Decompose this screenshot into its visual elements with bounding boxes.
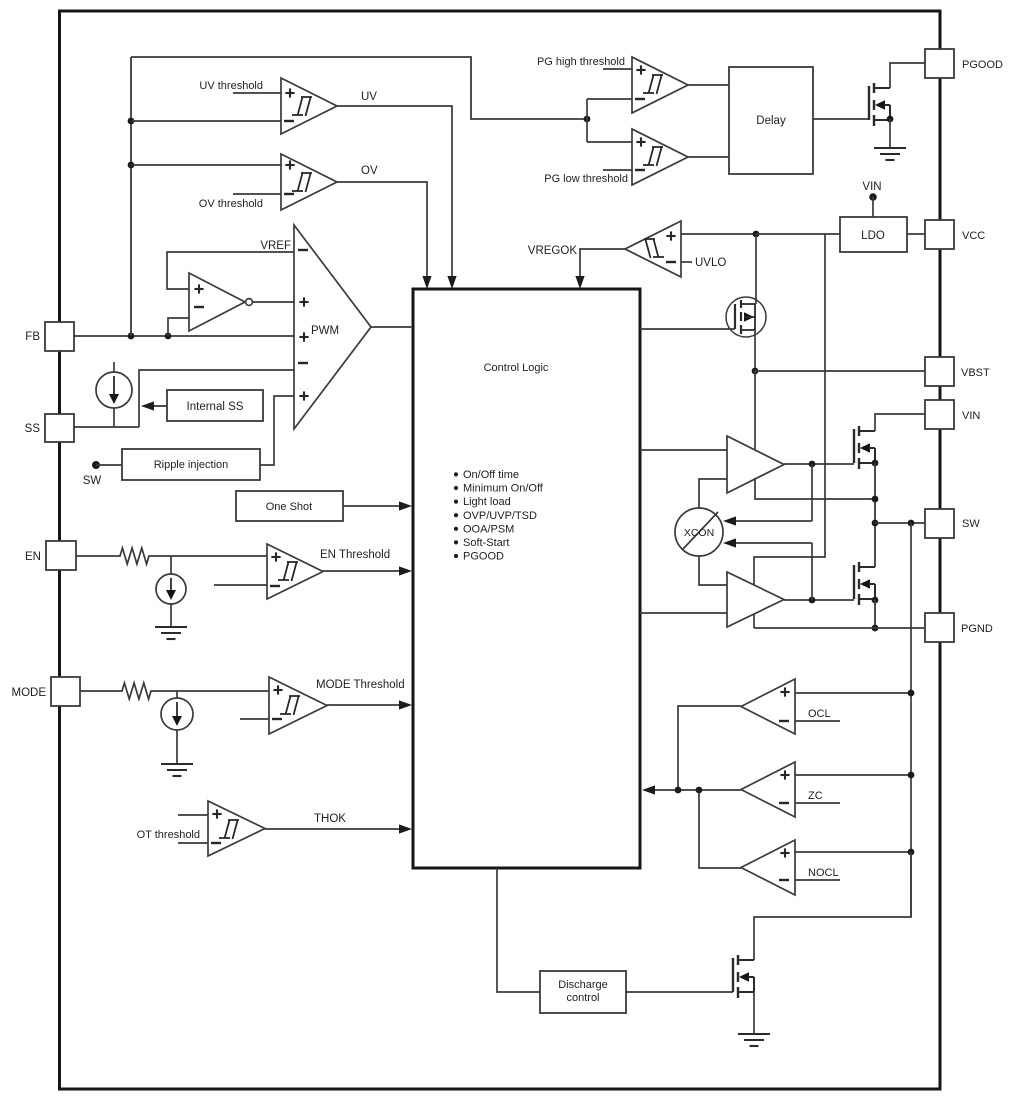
wire VBST node to pin bbox=[755, 370, 925, 372]
junction dot PGOOD source bbox=[887, 116, 894, 123]
wire control to low driver bbox=[640, 612, 727, 614]
junction dot high source bbox=[872, 460, 879, 467]
svg-text:PG low threshold: PG low threshold bbox=[544, 173, 628, 185]
wire Delay output to gate bbox=[813, 118, 869, 120]
comparator PWM bbox=[294, 225, 371, 429]
junction dot NOCL join bbox=[696, 787, 703, 794]
svg-text:SW: SW bbox=[962, 518, 980, 530]
label VIN above LDO bbox=[862, 181, 881, 193]
svg-text:Discharge: Discharge bbox=[558, 979, 608, 991]
control logic feature bullet list bbox=[454, 469, 544, 563]
wire UV plus stub bbox=[233, 92, 281, 94]
svg-text:Internal SS: Internal SS bbox=[187, 401, 244, 413]
svg-text:SS: SS bbox=[25, 423, 41, 435]
transistor high-side NMOS bbox=[854, 426, 875, 469]
svg-text:PG high threshold: PG high threshold bbox=[537, 56, 625, 68]
block Internal SS bbox=[167, 390, 263, 421]
block Ripple injection bbox=[122, 449, 260, 480]
comparator OT bbox=[208, 801, 265, 856]
wire MODE pin to resistor bbox=[80, 690, 118, 692]
wire OT plus stub bbox=[178, 814, 208, 816]
wire ZC plus from rail bbox=[795, 774, 911, 776]
junction dot low gate node bbox=[809, 597, 816, 604]
svg-text:PGOOD: PGOOD bbox=[463, 551, 504, 563]
svg-text:VCC: VCC bbox=[962, 230, 985, 242]
wire UVLO plus from VCC node bbox=[681, 233, 756, 235]
svg-text:VBST: VBST bbox=[961, 367, 990, 379]
wire to PG high minus bbox=[587, 98, 632, 100]
comparator NOCL bbox=[741, 840, 795, 895]
wire PGND rail to pin bbox=[754, 627, 925, 629]
svg-text:ZC: ZC bbox=[808, 790, 823, 802]
op-amp error amplifier bbox=[189, 273, 245, 331]
wire SW tap to ripple box bbox=[96, 464, 122, 466]
current source MODE pull-down bbox=[161, 691, 193, 764]
label UV bbox=[361, 91, 377, 103]
wire control logic to discharge block bbox=[497, 868, 540, 992]
junction dot rail/OV plus bbox=[128, 162, 135, 169]
resistor EN bbox=[116, 548, 153, 564]
junction dot FB/UV-OV rail bbox=[128, 333, 135, 340]
wire XCON to low driver bbox=[699, 556, 727, 585]
comparator UVLO bbox=[625, 221, 681, 277]
comparator PG low bbox=[632, 129, 688, 185]
control logic block bbox=[413, 289, 640, 868]
junction dot rail/OCL bbox=[908, 690, 915, 697]
svg-text:VIN: VIN bbox=[862, 181, 881, 193]
svg-text:XCON: XCON bbox=[684, 527, 714, 539]
wire PG low minus stub bbox=[603, 169, 632, 171]
ground EN bbox=[155, 627, 187, 639]
wire low driver return to PGND bbox=[753, 614, 755, 628]
svg-text:PWM: PWM bbox=[311, 325, 339, 337]
pin EN bbox=[25, 541, 76, 570]
wire VIN dot to LDO bbox=[872, 197, 874, 217]
wire SW sense rail bbox=[910, 523, 912, 917]
arrow Internal SS to SS node bbox=[141, 401, 167, 410]
svg-text:OVP/UVP/TSD: OVP/UVP/TSD bbox=[463, 510, 537, 522]
svg-text:VIN: VIN bbox=[962, 410, 980, 422]
label THOK bbox=[314, 813, 346, 825]
junction dot VBST node bbox=[752, 368, 759, 375]
label VREGOK bbox=[528, 245, 578, 257]
ground discharge FET bbox=[738, 1034, 770, 1046]
junction dot FB/error-amp bbox=[165, 333, 172, 340]
svg-text:OOA/PSM: OOA/PSM bbox=[463, 523, 514, 535]
label PG high threshold bbox=[537, 56, 625, 68]
node VIN dot bbox=[869, 193, 877, 201]
wire EN minus stub bbox=[214, 584, 267, 586]
pin FB bbox=[25, 322, 74, 351]
wire PWM output bbox=[371, 326, 413, 328]
wire high drain to VIN pin bbox=[875, 414, 925, 431]
label ZC bbox=[808, 790, 823, 802]
wire rail to UV minus bbox=[131, 120, 281, 122]
wire discharge block to gate bbox=[626, 991, 733, 993]
svg-text:One Shot: One Shot bbox=[266, 501, 312, 513]
wire ripple to PWM plus bbox=[260, 396, 294, 465]
wire to PG low plus bbox=[587, 141, 632, 143]
wire high source to SW bbox=[874, 463, 876, 567]
wire MODE resistor to comparator bbox=[155, 690, 269, 692]
svg-text:MODE Threshold: MODE Threshold bbox=[316, 679, 405, 691]
junction dot OCL join bbox=[675, 787, 682, 794]
wire error amp output to PWM bbox=[253, 301, 294, 303]
junction dot PG threshold split bbox=[584, 116, 591, 123]
svg-text:THOK: THOK bbox=[314, 813, 346, 825]
block One Shot bbox=[236, 491, 343, 521]
svg-text:LDO: LDO bbox=[861, 230, 885, 242]
label OV threshold bbox=[199, 198, 263, 210]
svg-text:EN Threshold: EN Threshold bbox=[320, 549, 390, 561]
label NOCL bbox=[808, 867, 839, 879]
block LDO bbox=[840, 217, 907, 252]
wire OV output to control logic bbox=[337, 182, 432, 289]
pin SS bbox=[25, 414, 74, 442]
wire XCON to high driver bbox=[699, 479, 727, 508]
svg-text:OV: OV bbox=[361, 165, 378, 177]
comparator PG high bbox=[632, 57, 688, 113]
svg-text:Soft-Start: Soft-Start bbox=[463, 537, 509, 549]
wire NOCL minus stub bbox=[795, 879, 840, 881]
pin SW bbox=[925, 509, 980, 538]
svg-text:VREF: VREF bbox=[260, 240, 291, 252]
block Delay bbox=[729, 67, 813, 174]
comparator OCL bbox=[741, 679, 795, 734]
wire EN resistor to comparator bbox=[153, 555, 267, 557]
wire node to LDO bbox=[756, 233, 840, 235]
circle XCON cross-conduction control bbox=[675, 508, 723, 556]
wire PGOOD drain to pin bbox=[890, 63, 925, 88]
wire VREGOK to control logic bbox=[575, 249, 625, 289]
junction dot rail/UV minus bbox=[128, 118, 135, 125]
wire VBST to high driver supply bbox=[754, 371, 756, 449]
wire control to high driver bbox=[640, 449, 727, 451]
wire high driver return to SW bbox=[755, 478, 876, 499]
wire error amp minus to FB bbox=[168, 318, 189, 336]
wire SW node to pin bbox=[875, 522, 925, 524]
wire EN comparator output bbox=[323, 566, 412, 575]
svg-text:UVLO: UVLO bbox=[695, 257, 726, 269]
svg-text:OCL: OCL bbox=[808, 708, 831, 720]
junction dot SW node bbox=[872, 520, 879, 527]
pin MODE bbox=[12, 677, 81, 706]
buffer high-side driver bbox=[727, 436, 784, 493]
wire PG low output bbox=[688, 156, 729, 158]
wire LDO to VCC pin bbox=[907, 233, 925, 235]
wire PG split vertical bbox=[586, 99, 588, 142]
svg-text:PGOOD: PGOOD bbox=[962, 59, 1003, 71]
wire PG high output bbox=[688, 84, 729, 86]
comparator UV bbox=[281, 78, 337, 134]
label OCL bbox=[808, 708, 831, 720]
comparator MODE threshold bbox=[269, 677, 327, 734]
label MODE Threshold bbox=[316, 679, 405, 691]
resistor MODE bbox=[118, 683, 155, 699]
wire UV-OV sense rail vertical bbox=[130, 57, 132, 336]
wire VCC node to boost drain bbox=[755, 234, 757, 304]
svg-text:MODE: MODE bbox=[12, 687, 47, 699]
svg-text:PGND: PGND bbox=[961, 623, 993, 635]
block Discharge control bbox=[540, 971, 626, 1013]
wire high gate sense to XCON bbox=[723, 464, 812, 526]
current source EN pull-down bbox=[156, 556, 186, 627]
wire high driver output to gate bbox=[784, 463, 854, 465]
pin PGND bbox=[925, 613, 993, 642]
svg-text:control: control bbox=[566, 992, 599, 1004]
label OT threshold bbox=[137, 829, 200, 841]
ground MODE bbox=[161, 764, 193, 776]
wire boost gate from control logic bbox=[640, 328, 735, 330]
wire NOCL output bbox=[699, 790, 741, 868]
junction dot rail/ZC bbox=[908, 772, 915, 779]
wire ZC minus stub bbox=[795, 802, 840, 804]
label UV threshold bbox=[199, 80, 263, 92]
svg-text:Control Logic: Control Logic bbox=[484, 362, 549, 374]
transistor boost switch bbox=[726, 297, 766, 337]
wire MODE comparator output bbox=[327, 700, 412, 709]
svg-text:Light load: Light load bbox=[463, 496, 511, 508]
wire FB top feed to PG comparators bbox=[131, 57, 587, 119]
wire One Shot to control logic bbox=[343, 501, 412, 510]
wire OV minus stub bbox=[233, 193, 281, 195]
label UVLO bbox=[695, 257, 726, 269]
junction dot rail/NOCL bbox=[908, 849, 915, 856]
wire OT minus stub bbox=[178, 842, 208, 844]
wire low gate sense to XCON bbox=[723, 538, 812, 600]
wire discharge source to ground bbox=[753, 992, 755, 1034]
pin VIN bbox=[925, 400, 980, 429]
comparator OV bbox=[281, 154, 337, 210]
wire UVLO minus stub to label bbox=[681, 261, 692, 263]
current source soft-start bbox=[96, 362, 132, 427]
pin VCC bbox=[925, 220, 985, 249]
junction dot SW bootstrap return bbox=[872, 496, 879, 503]
svg-text:UV threshold: UV threshold bbox=[199, 80, 263, 92]
ground PGOOD FET bbox=[874, 148, 906, 160]
wire SS to PWM minus bbox=[139, 370, 294, 427]
error amp output bubble bbox=[246, 299, 253, 306]
svg-text:Delay: Delay bbox=[756, 115, 786, 127]
svg-text:VREGOK: VREGOK bbox=[528, 245, 578, 257]
wire OCL minus stub bbox=[795, 720, 840, 722]
label PG low threshold bbox=[544, 173, 628, 185]
svg-text:SW: SW bbox=[83, 475, 102, 487]
wire VREF node bbox=[167, 252, 294, 289]
transistor PGOOD pull-down bbox=[869, 83, 890, 126]
svg-text:UV: UV bbox=[361, 91, 377, 103]
wire boost source to VBST bbox=[754, 330, 756, 371]
junction dot low source bbox=[872, 597, 879, 604]
wire MODE minus stub bbox=[240, 718, 269, 720]
pin PGOOD bbox=[925, 49, 1003, 78]
wire EN pin to resistor bbox=[76, 555, 116, 557]
wire VCC rail down to low driver bbox=[754, 234, 825, 585]
transistor low-side NMOS bbox=[854, 562, 875, 605]
svg-text:OT threshold: OT threshold bbox=[137, 829, 200, 841]
node SW ripple tap bbox=[83, 461, 102, 487]
label VREF bbox=[260, 240, 291, 252]
junction dot VCC sense node bbox=[753, 231, 760, 238]
svg-text:Ripple injection: Ripple injection bbox=[154, 459, 229, 471]
wire UV output to control logic bbox=[337, 106, 457, 289]
svg-text:OV threshold: OV threshold bbox=[199, 198, 263, 210]
wire FB pin to PWM input bbox=[74, 335, 294, 337]
wire PGOOD source to ground bbox=[889, 119, 891, 148]
pin VBST bbox=[925, 357, 990, 386]
svg-text:EN: EN bbox=[25, 551, 41, 563]
label OV bbox=[361, 165, 378, 177]
wire rail to OV plus bbox=[131, 164, 281, 166]
junction dot SW sense tap bbox=[908, 520, 915, 527]
comparator EN threshold bbox=[267, 544, 323, 599]
svg-text:FB: FB bbox=[25, 331, 40, 343]
wire rail to discharge drain bbox=[754, 852, 911, 960]
wire low source to PGND bbox=[874, 600, 876, 628]
svg-text:Minimum On/Off: Minimum On/Off bbox=[463, 483, 544, 495]
wire current comparators to control logic bbox=[642, 785, 741, 794]
junction dot PGND node bbox=[872, 625, 879, 632]
comparator ZC bbox=[741, 762, 795, 817]
transistor discharge NMOS bbox=[733, 955, 754, 998]
wire OT output THOK bbox=[265, 824, 412, 833]
wire OCL plus from rail bbox=[795, 692, 911, 694]
wire OCL output bbox=[678, 706, 741, 790]
wire low driver output to gate bbox=[784, 599, 854, 601]
wire PG high plus stub bbox=[603, 68, 632, 70]
wire SS pin bbox=[73, 426, 139, 428]
junction dot high gate node bbox=[809, 461, 816, 468]
wire NOCL plus from rail bbox=[795, 851, 911, 853]
buffer low-side driver bbox=[727, 572, 784, 627]
svg-text:NOCL: NOCL bbox=[808, 867, 839, 879]
svg-text:On/Off time: On/Off time bbox=[463, 469, 519, 481]
label EN Threshold bbox=[320, 549, 390, 561]
